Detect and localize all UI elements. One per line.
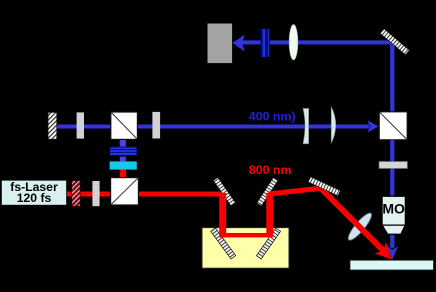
arrow: blue beam onto sample (387, 246, 398, 259)
lens L3 (plano-convex telescope lens) (331, 106, 336, 143)
lens L4 (focusing lens in 800nm arm) (345, 210, 375, 243)
wire: red horizontal inside delay stage (220, 233, 272, 237)
beam splitter BS3 (recombining cube at right) (379, 112, 407, 140)
delay stage (yellow translation stage) (202, 228, 289, 269)
microscope objective MO (382, 196, 405, 234)
wire: blue 400nm beam, top horizontal run to detector (236, 40, 394, 44)
wire: red vertical down into delay stage (219, 193, 226, 237)
mirror M2 (fold mirror above stage, right) (257, 177, 278, 206)
svg-text:400 nm): 400 nm) (249, 109, 296, 123)
mirror M4 (end mirror, left of middle arm) (48, 112, 57, 139)
filter F3 (grey plate below splitter) (379, 162, 407, 169)
svg-text:120 fs: 120 fs (17, 191, 52, 205)
wire: red 800nm beam from laser to delay corner (67, 192, 226, 197)
attenuator (red hatched plate) (72, 181, 80, 207)
svg-text:800 nm: 800 nm (249, 163, 292, 177)
wire: red beam from delay to steering mirror (slightly rising) (269, 185, 323, 196)
plate P3 (glass plate after attenuator) (92, 181, 99, 206)
wire: red stub above lower splitter (120, 170, 126, 178)
filter F1 (blue striped plate in top beam) (260, 29, 270, 57)
mirror M5 (top right steering mirror) (380, 29, 409, 55)
wire: red vertical up out of delay stage (266, 193, 273, 237)
wire: red diagonal beam to sample (319, 186, 387, 254)
mirror M7 (right mirror inside delay stage) (256, 228, 280, 259)
SHG crystal (cyan box) (110, 161, 137, 169)
beam splitter BS1 (splitter after laser) (111, 178, 139, 205)
lens L1 (collection lens before detector) (289, 24, 298, 60)
wire: blue vertical run from splitter down to sample (390, 140, 394, 248)
wire: blue stub below middle splitter (120, 139, 126, 147)
mirror M6 (left mirror inside delay stage) (211, 228, 236, 259)
wire: blue vertical run from splitter up to top mirror (390, 40, 394, 112)
beam splitter BS2 (middle cube) (111, 112, 138, 139)
arrow into detector (233, 35, 245, 52)
lens L2 (plano-concave telescope lens) (303, 108, 309, 143)
mirror M3 (steering mirror toward sample) (308, 177, 340, 196)
detector (grey box) (208, 24, 233, 64)
filter F2 (blue striped filter stack) (110, 147, 137, 156)
svg-text:MO: MO (382, 201, 405, 217)
wire: blue stub between SHG and filter stack (120, 157, 126, 162)
wire: blue 400nm beam, middle horizontal run (57, 125, 369, 129)
plate P2 (glass plate right of splitter) (152, 112, 160, 139)
laser (fs-Laser 120 fs source box) (1, 180, 67, 206)
arrow: red beam onto sample (374, 242, 392, 260)
plate P1 (glass plate left of splitter) (77, 112, 84, 138)
arrow into recombining splitter (368, 120, 379, 132)
mirror M1 (fold mirror above stage, left) (213, 177, 235, 206)
sample (light blue slab) (350, 260, 434, 270)
